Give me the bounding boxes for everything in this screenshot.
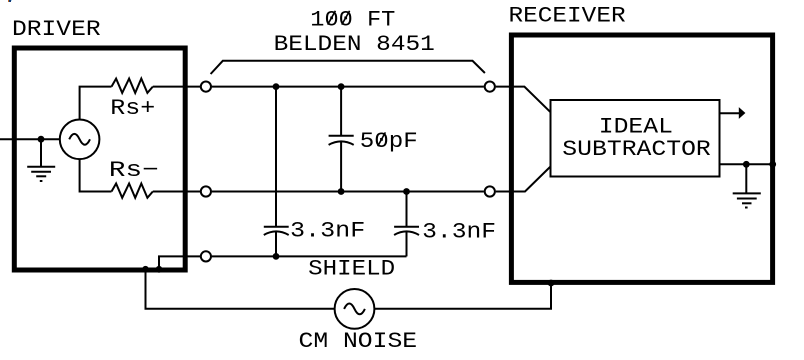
ground (driver) bbox=[27, 139, 55, 181]
svg-text:Rs+: Rs+ bbox=[110, 95, 155, 121]
node (shield tap on driver bottom edge) bbox=[156, 266, 163, 273]
node (CM tap on driver bottom edge) bbox=[142, 266, 149, 273]
wire bottom conductor bbox=[212, 191, 484, 193]
wire CM noise right leg bbox=[374, 283, 551, 309]
wire CM noise left leg bbox=[146, 269, 335, 309]
svg-text:SHIELD: SHIELD bbox=[308, 256, 395, 282]
wire receiver + input bbox=[496, 87, 551, 113]
svg-text:50pF: 50pF bbox=[360, 128, 418, 154]
arrow output of subtractor bbox=[720, 107, 746, 119]
wire source top to Rs+ bbox=[80, 87, 112, 120]
svg-text:100 FT: 100 FT bbox=[310, 6, 395, 32]
node (bottom wire / C3) bbox=[403, 188, 410, 195]
svg-text:SUBTRACTOR: SUBTRACTOR bbox=[562, 136, 711, 162]
wire Rs- to terminal bbox=[153, 191, 200, 193]
node (top wire / C1) bbox=[273, 83, 280, 90]
node (shield / C1) bbox=[273, 253, 280, 260]
wire subtractor ref to receiver right edge bbox=[720, 163, 773, 165]
node (on receiver right edge) bbox=[769, 161, 776, 168]
node (top wire / C2) bbox=[338, 83, 345, 90]
node (receiver ground junction) bbox=[743, 161, 750, 168]
source CM noise bbox=[335, 289, 375, 329]
wire shield stub from driver bottom edge bbox=[159, 256, 200, 268]
slash of zero in 100 FT bbox=[328, 11, 336, 25]
wire top conductor bbox=[212, 86, 484, 88]
svg-text:DRIVER: DRIVER bbox=[12, 16, 101, 42]
resistor Rs- bbox=[112, 184, 153, 198]
receiver box bbox=[511, 35, 772, 282]
svg-text:RECEIVER: RECEIVER bbox=[509, 3, 626, 29]
wire shield run bbox=[212, 255, 407, 257]
terminal circle (driver +) bbox=[201, 82, 211, 92]
ground (receiver) bbox=[733, 164, 761, 207]
terminal circle (receiver +) bbox=[485, 82, 495, 92]
wire Rs+ to terminal bbox=[153, 86, 200, 88]
terminal circle (driver shield) bbox=[201, 251, 211, 261]
slash of zero in 50pF bbox=[378, 132, 386, 146]
svg-text:3.3nF: 3.3nF bbox=[290, 218, 365, 244]
capacitor C3 3.3nF (bottom wire to shield) bbox=[394, 192, 419, 257]
op-amp U1 ideal subtractor box bbox=[551, 100, 720, 177]
wire left stub into driver bbox=[0, 138, 60, 140]
svg-text:CM NOISE: CM NOISE bbox=[299, 328, 418, 354]
wire receiver - input bbox=[496, 167, 551, 192]
node (bottom wire / C2) bbox=[338, 188, 345, 195]
slash of zero in 100 FT bbox=[342, 11, 350, 25]
svg-text:3.3nF: 3.3nF bbox=[422, 219, 496, 245]
capacitor C2 50pF (between conductors) bbox=[329, 87, 354, 192]
node (CM on receiver bottom edge) bbox=[548, 280, 555, 287]
svg-text:BELDEN 8451: BELDEN 8451 bbox=[274, 31, 435, 57]
terminal circle (receiver -) bbox=[485, 186, 495, 196]
terminal circle (driver -) bbox=[201, 186, 211, 196]
svg-text:Rs−: Rs− bbox=[109, 157, 159, 183]
callout pointer line (cable label) bbox=[211, 61, 485, 74]
node A (source/ground junction dot) bbox=[38, 136, 45, 143]
tiny colored artifact top-left bbox=[8, 0, 9, 2]
capacitor C1 3.3nF (top wire to shield) bbox=[264, 87, 289, 257]
source VS (driver sine source) bbox=[60, 120, 100, 160]
resistor Rs+ bbox=[112, 79, 153, 93]
wire source bottom to Rs- bbox=[80, 159, 112, 191]
driver box bbox=[14, 48, 185, 270]
